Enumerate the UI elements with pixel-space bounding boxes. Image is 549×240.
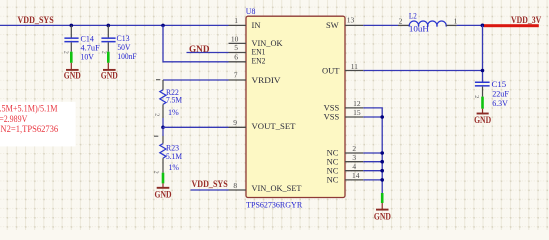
svg-text:L2: L2: [409, 11, 417, 21]
svg-text:5.1M: 5.1M: [166, 151, 182, 161]
net label VDD_SYS (top left): [18, 15, 54, 25]
svg-text:8: 8: [233, 181, 237, 190]
pin 14 NC stub: [345, 171, 363, 180]
svg-text:4: 4: [352, 162, 356, 171]
svg-text:7: 7: [234, 71, 238, 80]
svg-text:EN2=1,TPS62736: EN2=1,TPS62736: [0, 125, 58, 135]
svg-text:2: 2: [154, 113, 160, 116]
pin name VIN_OK: [252, 38, 284, 48]
svg-text:12: 12: [353, 99, 361, 108]
net label VDD_SYS (at pin 8): [192, 179, 228, 189]
pin name NC (2): [327, 148, 339, 158]
wire NC pin14: [363, 179, 382, 181]
junction at NC2: [380, 151, 384, 155]
svg-text:10uH: 10uH: [409, 24, 429, 34]
svg-text:2: 2: [399, 17, 403, 26]
value label C15: [492, 79, 510, 108]
svg-text:OUT: OUT: [322, 65, 340, 75]
junction at NC4: [380, 169, 384, 173]
svg-text:VDD_SYS: VDD_SYS: [192, 179, 228, 189]
wire VDD_SYS main horizontal: [0, 24, 229, 26]
svg-text:2: 2: [62, 51, 68, 54]
svg-text:VIN_OK_SET: VIN_OK_SET: [252, 183, 303, 193]
svg-text:VOUT_SET: VOUT_SET: [252, 121, 297, 131]
pin name EN2: [252, 56, 266, 66]
svg-text:10V: 10V: [81, 52, 95, 62]
value label C14: [81, 33, 100, 61]
pin 4 NC stub: [345, 162, 363, 171]
svg-text:GND: GND: [101, 71, 118, 81]
wire OUT to C15 node: [363, 70, 482, 72]
svg-text:GND: GND: [64, 71, 81, 81]
svg-text:3: 3: [352, 153, 356, 162]
svg-text:EN2: EN2: [252, 56, 266, 66]
junction at OUT/C15: [481, 69, 485, 73]
pin name VSS (12): [324, 103, 340, 113]
junction at VOUT_SET divider: [161, 126, 165, 130]
wire VSS pin15: [363, 116, 382, 118]
junction at NC3: [380, 160, 384, 164]
svg-text:GND: GND: [155, 190, 172, 200]
pin 2 NC stub: [345, 144, 363, 153]
pin name NC (3): [327, 156, 339, 166]
svg-text:100nF: 100nF: [117, 51, 136, 61]
op-amp U8 body (TPS62736 regulator): [246, 7, 345, 210]
svg-text:1%: 1%: [169, 162, 180, 172]
resistor R23 pin1 marker: [154, 135, 158, 137]
svg-text:1%: 1%: [168, 107, 179, 117]
svg-text:2: 2: [473, 95, 479, 98]
pin name NC (14): [327, 175, 339, 185]
ground (C13): [101, 70, 118, 81]
pin name VOUT_SET: [252, 121, 297, 131]
svg-text:VDD_3V: VDD_3V: [511, 15, 542, 25]
capacitor C13: [101, 25, 115, 69]
svg-text:GND: GND: [474, 115, 491, 125]
wire NC pin4: [363, 170, 382, 172]
junction at VSS15: [380, 115, 384, 119]
ground (C15): [474, 114, 491, 126]
wire SW to L2: [363, 24, 409, 26]
pin name IN: [252, 20, 261, 30]
pin name SW: [326, 20, 339, 30]
junction at EN2 drop: [161, 24, 165, 28]
svg-text:2: 2: [352, 144, 356, 153]
power bus VDD_3V (thick red): [484, 24, 539, 27]
resistor R22: [160, 80, 166, 127]
resistor R22 pin1 marker: [156, 79, 160, 81]
net label VDD_3V: [511, 15, 542, 25]
ground (VSS): [374, 210, 391, 222]
svg-text:NC: NC: [327, 175, 339, 185]
pin 3 NC stub: [345, 153, 363, 162]
pin 11 OUT stub: [345, 62, 363, 71]
svg-text:9: 9: [233, 118, 237, 127]
pin 1 IN stub: [229, 16, 247, 26]
svg-text:1: 1: [234, 16, 238, 25]
value label L2: [409, 11, 429, 34]
wire NC pin2: [363, 152, 382, 154]
junction at VDD_3V node: [481, 24, 485, 28]
svg-text:2: 2: [101, 51, 107, 54]
resistor R23: [160, 127, 166, 187]
wire L2 to VDD_3V node: [446, 24, 482, 26]
inductor L2: [409, 21, 446, 27]
ground (C14): [64, 70, 81, 81]
svg-text:VSS: VSS: [324, 112, 340, 122]
junction at C14: [70, 24, 74, 28]
annotation note (white box, red text): [0, 102, 76, 147]
wire EN2 vertical drop: [163, 25, 229, 61]
no-ERC marker (green) on VSS gnd wire: [381, 193, 384, 209]
svg-text:=2.989V: =2.989V: [0, 115, 28, 125]
wire NC pin3: [363, 161, 382, 163]
capacitor C15: [475, 82, 490, 113]
net label GND (EN1 wire): [189, 44, 210, 54]
pin 12 VSS stub: [345, 99, 363, 108]
value label R23: [166, 142, 182, 171]
pin name OUT: [322, 65, 340, 75]
pin name EN1: [252, 46, 266, 56]
capacitor C14 pin2 marker: [62, 51, 68, 54]
ground (R23): [155, 188, 172, 200]
resistor R22 pin2 marker: [154, 113, 160, 116]
svg-text:GND: GND: [374, 211, 391, 221]
svg-text:1: 1: [454, 17, 458, 26]
svg-text:2: 2: [153, 171, 159, 174]
pin name VRDIV: [252, 75, 282, 85]
pin 10 VIN_OK stub: [229, 34, 247, 43]
capacitor C13 pin2 marker: [101, 51, 107, 54]
inductor L2 pin 2 number: [399, 17, 403, 26]
svg-text:14: 14: [352, 171, 360, 180]
pin 15 VSS stub: [345, 108, 363, 117]
junction at NC14: [380, 178, 384, 182]
svg-text:U8: U8: [246, 7, 256, 16]
junction at C13: [107, 24, 111, 28]
wire VDD_SYS to VIN_OK_SET: [191, 189, 229, 191]
pin 7 VRDIV stub: [229, 71, 247, 80]
svg-text:10: 10: [231, 34, 239, 43]
svg-text:15: 15: [353, 108, 361, 117]
value label C13: [117, 33, 137, 61]
svg-text:13: 13: [347, 16, 355, 25]
svg-text:7.5M: 7.5M: [166, 94, 182, 104]
pin 13 SW stub: [345, 16, 363, 26]
pin 8 VIN_OK_SET stub: [229, 181, 247, 190]
wire divider to VOUT_SET: [163, 126, 229, 128]
svg-text:TPS62736RGYR: TPS62736RGYR: [246, 200, 302, 210]
svg-text:C15: C15: [492, 79, 507, 89]
svg-text:VDD_SYS: VDD_SYS: [18, 15, 54, 25]
pin 9 VOUT_SET stub: [229, 118, 247, 127]
value label R22: [166, 87, 182, 117]
pin name VIN_OK_SET: [252, 183, 303, 193]
inductor L2 pin 1 number: [454, 17, 458, 26]
svg-text:6.3V: 6.3V: [492, 98, 509, 108]
svg-text:5: 5: [234, 43, 238, 52]
wire VDD_3V node down to C15: [482, 25, 484, 81]
svg-text:VRDIV: VRDIV: [252, 75, 282, 85]
resistor R23 pin2 marker: [153, 171, 159, 174]
svg-text:.5M+5.1M)/5.1M: .5M+5.1M)/5.1M: [0, 103, 58, 114]
capacitor C15 pin2 marker: [473, 95, 479, 98]
pin name VSS (15): [324, 112, 340, 122]
wire GND to EN1: [187, 52, 229, 54]
svg-text:SW: SW: [326, 20, 339, 30]
pin 5 EN1 stub: [229, 43, 247, 53]
capacitor C14: [64, 25, 78, 69]
pin 6 EN2 stub: [229, 53, 247, 62]
wire VRDIV to divider: [163, 79, 229, 81]
svg-text:6: 6: [234, 53, 238, 62]
wire VSS pin12 to vertical: [363, 108, 382, 193]
svg-text:11: 11: [351, 62, 358, 71]
svg-text:IN: IN: [252, 20, 261, 30]
pin name NC (4): [327, 165, 339, 175]
